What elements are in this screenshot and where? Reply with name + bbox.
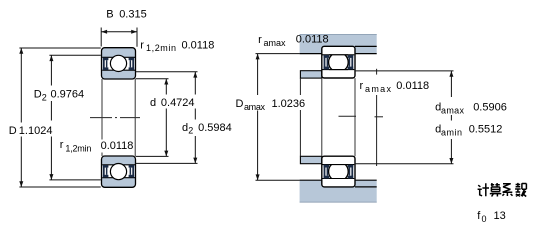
top half bearing block (open section) <box>322 46 355 78</box>
top half left seal <box>324 55 330 69</box>
svg-text:0: 0 <box>482 214 487 224</box>
label r1,2min 0.0118 (bottom), with white backing over face line <box>98 140 134 153</box>
svg-text:0.9764: 0.9764 <box>51 88 85 100</box>
svg-text:D: D <box>34 88 42 100</box>
svg-text:0.5906: 0.5906 <box>473 101 507 113</box>
D2 arrows <box>49 55 53 61</box>
svg-text:0.5512: 0.5512 <box>469 124 503 136</box>
svg-text:D: D <box>236 98 244 110</box>
shaft shoulder face line left <box>299 78 301 156</box>
svg-text:0.4724: 0.4724 <box>161 97 195 109</box>
svg-text:0.0118: 0.0118 <box>396 80 429 92</box>
bottom half: white cavity band <box>102 165 134 178</box>
top half: right seal <box>129 58 135 70</box>
svg-text:1.0236: 1.0236 <box>272 98 306 110</box>
top half raceway boundary lines <box>323 54 355 56</box>
svg-text:d: d <box>150 97 156 109</box>
top half: ball <box>110 55 126 71</box>
svg-text:amax: amax <box>244 102 266 112</box>
svg-text:amax: amax <box>365 84 392 94</box>
D arrows <box>19 48 23 54</box>
bearing side-face silhouette lines between halves <box>102 79 135 156</box>
bottom half section: outer+inner ring block <box>102 156 136 187</box>
bottom half: left seal <box>103 165 109 177</box>
dimension d: extension lines <box>136 78 169 80</box>
bottom half: right seal <box>129 165 135 177</box>
housing section bottom band <box>300 180 377 202</box>
label r amax 0.0118 (shaft fillet) <box>358 79 394 93</box>
top half: left seal <box>103 58 109 70</box>
d arrows <box>164 79 168 85</box>
dimension B: dimension line <box>101 31 137 33</box>
top half right seal <box>348 55 354 69</box>
计 <box>478 183 489 196</box>
bearing face silhouette lines (right figure) <box>322 78 355 156</box>
数 <box>515 183 526 197</box>
svg-text:0.5984: 0.5984 <box>198 122 232 134</box>
svg-text:r: r <box>140 39 144 51</box>
damax/damin dimension line <box>450 71 452 97</box>
housing bore line continuation right of bearing <box>355 45 377 47</box>
svg-text:0.0118: 0.0118 <box>296 33 329 45</box>
dimension d: dimension line <box>165 79 167 95</box>
svg-text:D: D <box>9 125 17 137</box>
arrowheads right figure <box>256 54 454 181</box>
dimension D2: dimension line <box>50 55 52 85</box>
bottom half raceway boundary lines <box>323 164 355 166</box>
Da extension lines <box>256 53 300 55</box>
damin reference line right <box>376 69 378 166</box>
svg-text:B: B <box>106 8 113 20</box>
top half: raceway boundary lines <box>102 56 135 58</box>
da extension lines <box>355 70 454 72</box>
svg-text:amax: amax <box>264 38 287 48</box>
svg-text:13: 13 <box>494 210 506 222</box>
shaft shoulder bottom-left <box>300 156 321 163</box>
svg-text:amax: amax <box>441 105 465 115</box>
d2 arrows <box>193 72 197 78</box>
svg-text:0.0118: 0.0118 <box>182 40 215 52</box>
svg-text:r: r <box>360 80 364 92</box>
dimension D: dimension line <box>20 48 22 123</box>
Damax dimension line <box>257 54 259 95</box>
bottom half: raceway boundary lines <box>102 164 135 166</box>
Chinese heading 计算系数 (drawn strokes, bold) <box>478 183 527 197</box>
svg-text:r: r <box>258 34 262 46</box>
svg-text:1.1024: 1.1024 <box>19 125 53 137</box>
svg-text:amin: amin <box>441 128 462 138</box>
housing band black edges (Da shoulder lines) <box>300 53 322 55</box>
svg-text:1,2min: 1,2min <box>146 43 176 53</box>
center axis (right figure) <box>339 115 384 118</box>
svg-text:0.315: 0.315 <box>119 8 147 20</box>
svg-text:0.0118: 0.0118 <box>101 140 134 152</box>
bottom half right seal <box>348 165 354 179</box>
bottom half bearing block <box>322 156 355 187</box>
dimension D: extension lines <box>19 47 100 49</box>
dimension D2: extension lines <box>49 54 100 56</box>
center axis (left figure) <box>90 117 140 119</box>
housing section top band <box>300 34 377 53</box>
svg-text:2: 2 <box>42 92 47 102</box>
svg-text:2: 2 <box>188 126 193 136</box>
B arrows <box>101 30 107 34</box>
dimension B: extension lines <box>100 28 102 47</box>
算 <box>490 183 502 197</box>
top half section: outer+inner ring block <box>102 48 136 79</box>
dimension d2: extension lines <box>136 71 198 73</box>
shaft shoulder top-left <box>300 71 321 78</box>
arrowheads left figure <box>19 30 197 187</box>
svg-text:1,2min: 1,2min <box>65 143 91 153</box>
svg-text:r: r <box>60 139 64 151</box>
dimension d2: dimension line <box>194 72 196 95</box>
bottom half: ball <box>110 164 126 180</box>
top half: white rolling-element cavity band <box>102 57 134 70</box>
bottom half left seal <box>324 165 330 179</box>
系 <box>502 184 512 196</box>
